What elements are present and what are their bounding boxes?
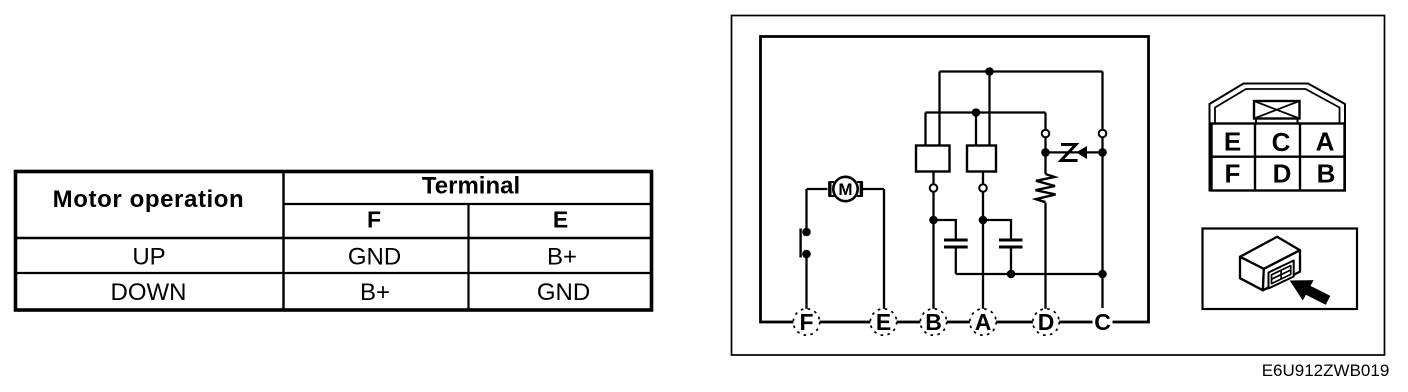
svg-text:GND: GND xyxy=(348,244,401,271)
svg-text:F: F xyxy=(1225,158,1241,188)
svg-text:D: D xyxy=(1038,309,1055,335)
svg-text:D: D xyxy=(1273,158,1292,188)
svg-text:E: E xyxy=(876,309,891,335)
svg-text:F: F xyxy=(799,309,813,335)
svg-text:B+: B+ xyxy=(547,244,577,271)
svg-text:C: C xyxy=(1272,127,1291,157)
svg-text:A: A xyxy=(1316,127,1335,157)
svg-text:C: C xyxy=(1094,309,1111,335)
svg-text:B: B xyxy=(925,309,942,335)
svg-text:UP: UP xyxy=(132,244,165,271)
svg-text:M: M xyxy=(838,180,852,199)
svg-text:Motor operation: Motor operation xyxy=(53,186,245,213)
svg-text:B: B xyxy=(1317,158,1336,188)
svg-text:B+: B+ xyxy=(360,279,390,306)
svg-text:A: A xyxy=(975,309,992,335)
svg-text:DOWN: DOWN xyxy=(111,279,187,306)
svg-text:F: F xyxy=(367,207,381,233)
svg-text:E6U912ZWB019: E6U912ZWB019 xyxy=(1262,361,1390,380)
svg-text:E: E xyxy=(553,207,568,233)
svg-text:E: E xyxy=(1224,127,1241,157)
svg-text:GND: GND xyxy=(537,279,590,306)
svg-text:Terminal: Terminal xyxy=(422,173,520,200)
